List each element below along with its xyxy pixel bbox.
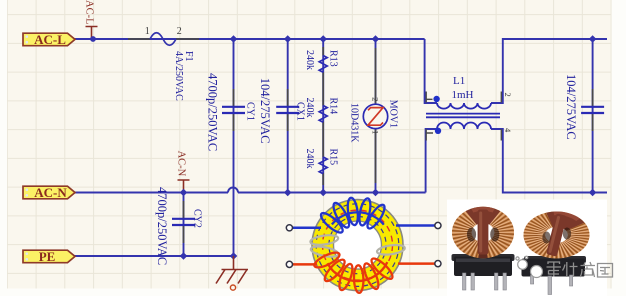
svg-text:MOV1: MOV1	[387, 100, 398, 128]
svg-text:4700p/250VAC: 4700p/250VAC	[205, 73, 219, 151]
toroid drawing: red lead right	[398, 262, 435, 265]
svg-text:L1: L1	[453, 75, 465, 87]
junction CY2 / AC-N rail	[180, 189, 188, 197]
toroid drawing: blue lead right	[396, 224, 435, 227]
wire resistor chain branch	[322, 39, 324, 193]
resistor R14	[304, 98, 338, 158]
watermark logo circles	[516, 256, 543, 277]
capacitor CX1	[258, 78, 306, 144]
svg-text:R15: R15	[328, 149, 339, 166]
svg-text:PE: PE	[39, 249, 56, 264]
toroid drawing: blue lead left	[293, 227, 322, 230]
junction output cap / top rail	[589, 35, 597, 43]
wire CY1 branch	[233, 39, 235, 256]
capacitor CY1	[205, 73, 255, 151]
svg-text:1mH: 1mH	[452, 89, 474, 101]
junction R13 / top rail	[319, 35, 327, 43]
photo background panel	[447, 200, 607, 296]
junction MOV1 / top rail	[372, 35, 380, 43]
wire output cap branch	[592, 39, 594, 193]
wire CY2 branch	[183, 193, 185, 257]
F1 pin leads	[128, 38, 199, 40]
capacitor output 104/275VAC	[564, 74, 604, 140]
toroid drawing: blue winding	[318, 197, 387, 235]
net label probe AC-N	[178, 180, 190, 193]
photo choke 2	[522, 212, 590, 295]
svg-text:AC-L: AC-L	[34, 32, 66, 47]
wire L1 output top	[491, 39, 607, 103]
toroid drawing: terminals	[286, 222, 441, 267]
junction CY2 / PE rail	[180, 252, 188, 260]
wire hop over CY1	[228, 188, 238, 193]
wire L1 input top	[425, 39, 437, 103]
port PE	[23, 249, 75, 264]
svg-text:AC-L: AC-L	[84, 0, 95, 25]
svg-text:1: 1	[371, 130, 381, 134]
svg-text:2: 2	[503, 93, 513, 97]
node junction AC-L probe	[90, 36, 96, 42]
toroid drawing: red lead left	[293, 263, 318, 266]
page margins	[0, 0, 7, 296]
svg-text:CX1: CX1	[294, 102, 305, 121]
svg-text:AC-N: AC-N	[175, 151, 186, 177]
wire L1 input bottom	[426, 129, 437, 193]
svg-text:CY1: CY1	[245, 102, 256, 121]
wire AC-N rail left segment	[74, 192, 228, 194]
svg-text:2: 2	[177, 26, 182, 37]
junction R15 / AC-N rail	[319, 189, 327, 197]
svg-text:240k: 240k	[304, 50, 315, 70]
svg-text:104/275VAC: 104/275VAC	[258, 78, 272, 144]
wire AC-N rail right segment	[238, 192, 426, 194]
watermark text (drawn glyphs)	[547, 262, 613, 277]
svg-text:104/275VAC: 104/275VAC	[564, 74, 578, 140]
junction CY1 / top rail	[230, 35, 238, 43]
junction output cap / bottom rail	[589, 189, 597, 197]
net label probe AC-L	[86, 27, 98, 40]
svg-text:R13: R13	[328, 50, 339, 67]
wire MOV branch	[375, 39, 377, 193]
svg-text:CY2: CY2	[192, 209, 203, 228]
svg-text:10D431K: 10D431K	[348, 103, 359, 143]
junction MOV1 / AC-N rail	[372, 189, 380, 197]
svg-text:R14: R14	[328, 98, 339, 115]
junction CX1 / AC-N rail	[284, 189, 292, 197]
photo choke 1	[452, 207, 515, 290]
svg-text:AC-N: AC-N	[34, 185, 67, 200]
svg-text:2: 2	[371, 97, 381, 101]
svg-text:1: 1	[145, 26, 150, 37]
svg-text:240k: 240k	[304, 149, 315, 169]
resistor R15	[304, 149, 338, 186]
svg-text:4700p/250VAC: 4700p/250VAC	[155, 187, 169, 265]
junction CX1 / top rail	[284, 35, 292, 43]
inductor L1 common-mode choke	[426, 75, 513, 141]
wire PE rail	[74, 255, 235, 257]
wire CX1 branch	[287, 39, 289, 193]
toroid drawing: red winding	[312, 250, 395, 293]
toroid drawing: core ring	[312, 200, 403, 291]
wire AC-L top rail	[74, 38, 425, 40]
fuse F1	[128, 26, 199, 101]
resistor R13	[304, 47, 338, 106]
svg-text:4A/250VAC: 4A/250VAC	[173, 51, 184, 101]
capacitor CY2	[155, 187, 203, 265]
port AC-L	[23, 32, 75, 47]
ground small circle mark	[230, 285, 235, 290]
toroid drawing: hidden gray turns	[310, 234, 406, 259]
wire L1 output bottom	[491, 129, 607, 193]
port AC-N	[23, 185, 75, 200]
F1 fuse wave symbol	[150, 33, 176, 46]
ground earth symbol	[216, 256, 248, 284]
varistor MOV1	[348, 48, 398, 183]
junction CY1-ground / PE rail	[230, 252, 238, 260]
svg-text:240k: 240k	[304, 98, 315, 118]
